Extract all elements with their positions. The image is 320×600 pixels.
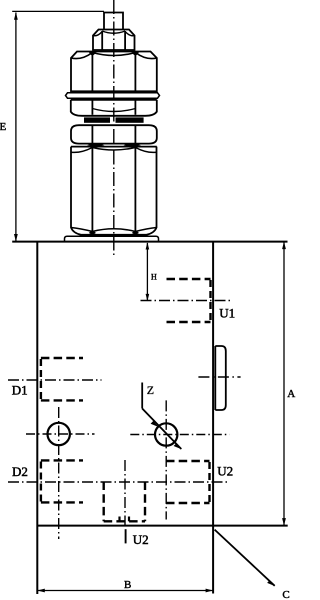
leader Z diagonal (142, 409, 181, 450)
hex band B rounded (71, 125, 157, 143)
port U1 hidden bottom (167, 321, 211, 323)
big hex facet left (91, 53, 93, 92)
svg-text:D2: D2 (12, 464, 28, 479)
band A facet left (91, 100, 93, 115)
big hex (locknut) (71, 52, 157, 92)
bottom cavity step left (118, 517, 120, 522)
port U1 hidden wall (209, 280, 211, 321)
dimension A arrow bottom (282, 518, 286, 526)
leader Z arrowhead at end (174, 443, 182, 449)
port D1 hidden bottom (41, 399, 83, 401)
bottom cavity U2 wall right (144, 482, 146, 522)
hole left v-axis (58, 407, 60, 539)
svg-text:C: C (282, 589, 289, 600)
bottom cavity axis tail below body (125, 529, 127, 543)
dimension E arrow top (14, 12, 18, 19)
body right edge (212, 242, 214, 594)
washer 2 on body (65, 236, 159, 241)
spring housing band A (71, 99, 157, 101)
lens chamfers between band B and body hex (87, 144, 105, 147)
port D2 hidden wall (40, 462, 42, 502)
band B facet left (91, 125, 93, 143)
side boss (215, 346, 226, 410)
port U2 right hidden top (166, 460, 210, 462)
dimension H arrow down (146, 294, 150, 301)
body hex facet left (91, 147, 93, 232)
body hex bottom facet lens right (132, 231, 139, 235)
svg-text:A: A (287, 388, 295, 400)
dimension E extension line top (12, 10, 104, 12)
dimension A line (283, 242, 285, 526)
body hex top bevel arcs (92, 148, 135, 151)
big hex facet lens right (132, 52, 139, 56)
port U1 axis (141, 300, 231, 302)
port D1 axis (8, 379, 102, 381)
hole Z v-axis (165, 400, 167, 519)
body hex bottom facet lens left (89, 231, 96, 235)
svg-text:D1: D1 (12, 382, 28, 397)
body hex facet right (134, 147, 136, 232)
body hex facet bottom arcs (92, 229, 135, 232)
port U1 hidden top (167, 278, 211, 280)
svg-text:Z: Z (147, 383, 154, 397)
leader Z vertical (141, 383, 143, 409)
boss center mark (198, 376, 240, 378)
dimension H arrow up (146, 242, 150, 249)
svg-text:E: E (0, 121, 7, 133)
dimension E line (15, 13, 17, 242)
svg-text:U2: U2 (133, 532, 149, 547)
body hex bottom line (81, 234, 147, 236)
svg-text:B: B (124, 579, 131, 591)
dimension E arrow bottom (14, 234, 18, 242)
small hex facet right (124, 31, 126, 50)
leader C arrowhead (267, 580, 275, 586)
dimension A arrow top (282, 242, 286, 250)
svg-text:H: H (151, 272, 157, 281)
svg-text:U1: U1 (219, 306, 235, 321)
svg-text:U2: U2 (217, 463, 233, 478)
dimension B arrow right (206, 589, 214, 593)
band A facet right (134, 100, 136, 115)
threaded neck dark bar (84, 117, 110, 122)
port D2 hidden top (41, 459, 83, 461)
band A facet arcs (92, 109, 135, 112)
dimension B line (37, 590, 213, 592)
small hex chamfer arcs (102, 31, 125, 33)
dimension H line (146, 243, 148, 301)
port D2 hidden bottom (41, 501, 83, 503)
body top edge (12, 241, 287, 243)
leader C diagonal (215, 530, 275, 586)
body hex (71, 147, 157, 235)
small hex (adjusting nut) (93, 30, 135, 51)
big hex facet right (134, 53, 136, 92)
bottom cavity axis (124, 460, 126, 526)
bottom cavity floor (104, 520, 145, 522)
port U2 right hidden wall (208, 462, 210, 502)
body left edge (36, 242, 38, 594)
hole left h-axis (26, 433, 95, 435)
bottom cavity U2 wall left (102, 482, 104, 522)
body bottom edge (37, 525, 287, 527)
mounting hole left (48, 423, 70, 445)
port D1 hidden wall (40, 359, 42, 400)
centerline cartridge axis (113, 0, 115, 258)
hole Z h-axis (130, 434, 229, 436)
dimension B arrow left (37, 589, 45, 593)
port U2 right hidden bottom (166, 502, 210, 504)
adjusting screw stem (104, 13, 123, 30)
hole Z (right) (155, 423, 177, 445)
port D1 hidden top (41, 357, 83, 359)
big hex chamfer arcs (92, 53, 135, 56)
band B facet right (134, 125, 136, 143)
shared axis D2 and U2 (8, 481, 229, 483)
washer 1 (66, 93, 160, 98)
leader Z arrowhead at circle (151, 421, 159, 427)
body hex top line (71, 146, 157, 148)
bottom cavity step right (128, 517, 130, 522)
small hex facet left (101, 31, 103, 50)
big hex facet lens left (89, 52, 96, 56)
